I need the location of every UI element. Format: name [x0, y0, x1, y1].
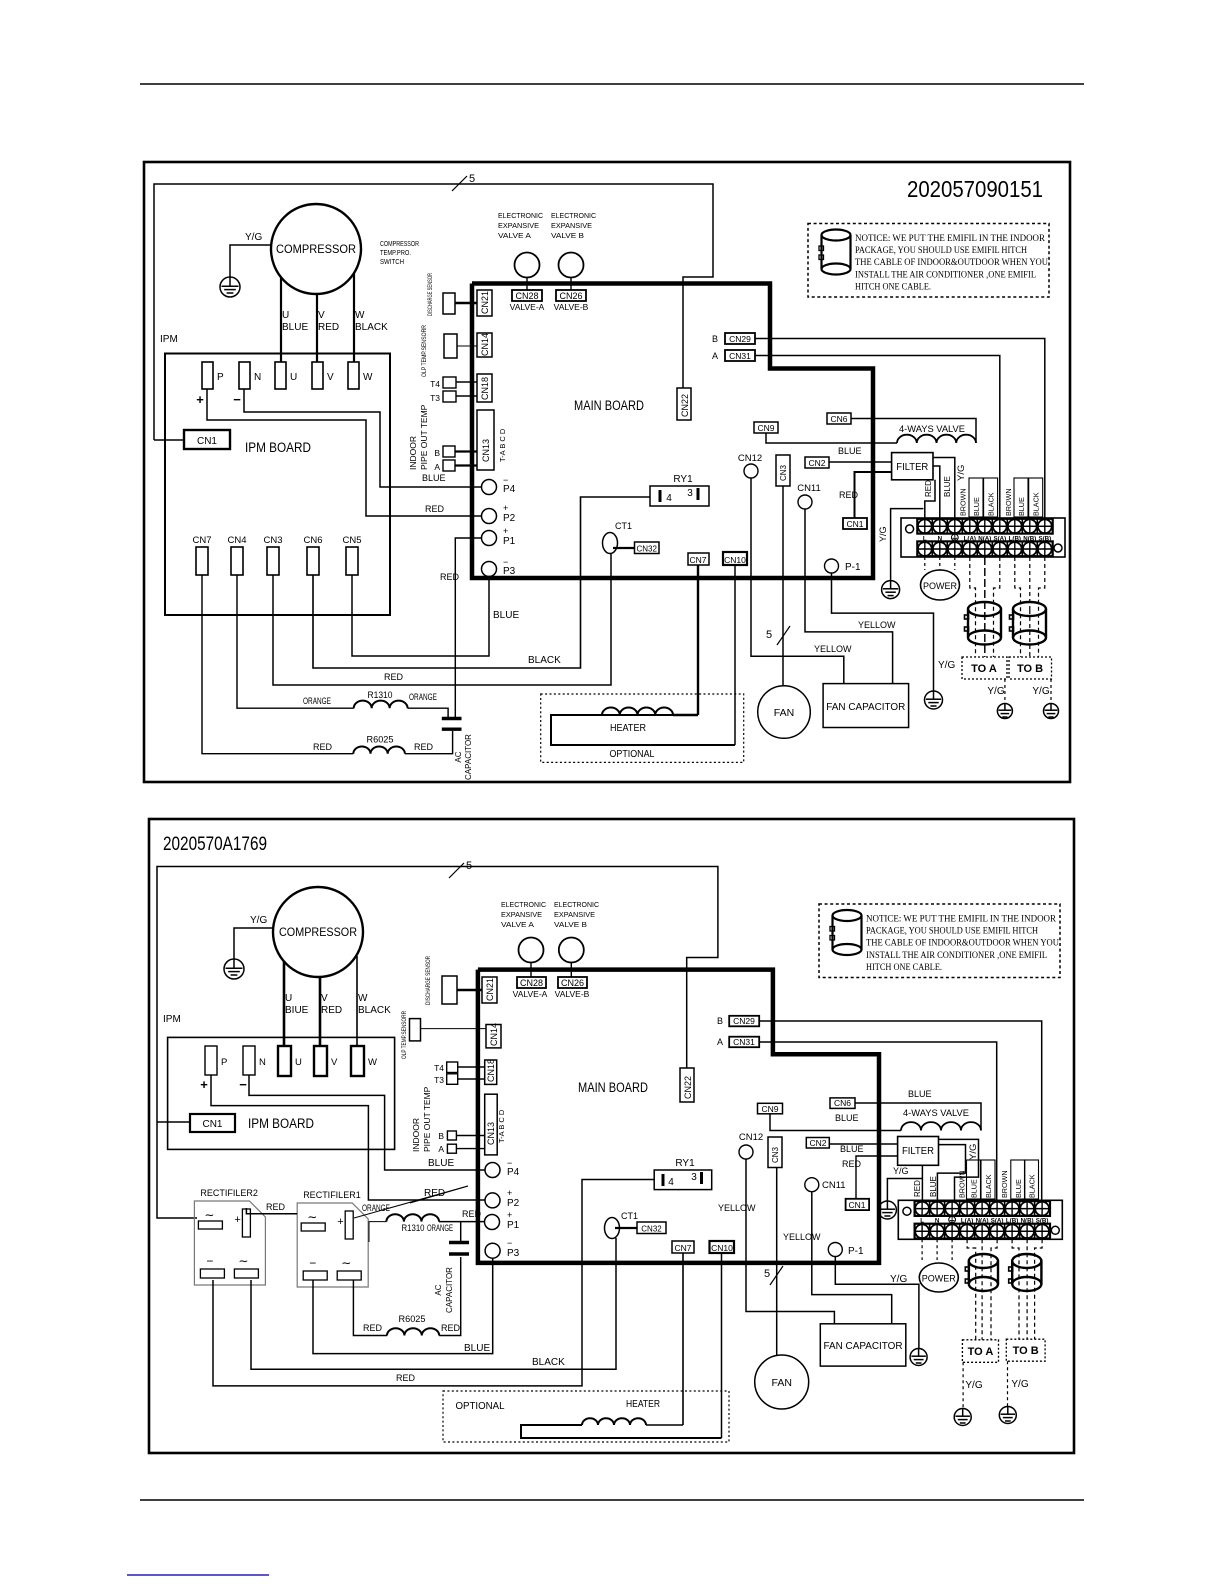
svg-text:RY1: RY1: [673, 474, 693, 485]
wire R1310 to P1 (bottom): [439, 1221, 485, 1223]
wire T4-CN18 (top): [456, 381, 477, 383]
svg-text:ORANGE: ORANGE: [427, 1223, 453, 1233]
svg-text:BLUE: BLUE: [428, 1158, 454, 1169]
svg-text:BLUE: BLUE: [1014, 1179, 1023, 1198]
svg-text:Y/G: Y/G: [938, 660, 955, 671]
svg-text:N: N: [259, 1057, 266, 1068]
ground compressor (top): [220, 277, 240, 297]
pad P4 (bottom): [485, 1163, 500, 1178]
svg-text:L: L: [923, 535, 927, 542]
svg-text:POWER: POWER: [922, 1274, 957, 1284]
relay RY1 (bottom): [654, 1170, 712, 1190]
terminal block (top): [901, 518, 1065, 557]
ground fan capacitor (bottom): [910, 1349, 927, 1366]
svg-text:EXPANSIVE: EXPANSIVE: [551, 221, 592, 230]
connector CN7 main (top): [688, 553, 709, 565]
svg-text:INDOOR: INDOOR: [408, 436, 418, 470]
terminal U (top): [275, 362, 286, 389]
connector CN5 IPM (top): [346, 547, 358, 575]
svg-text:NOTICE: WE PUT THE EMIFIL IN T: NOTICE: WE PUT THE EMIFIL IN THE INDOOR: [866, 915, 1057, 925]
svg-text:ORANGE: ORANGE: [362, 1203, 390, 1213]
connector CN3 main (top): [776, 455, 790, 486]
svg-text:RECTIFILER2: RECTIFILER2: [200, 1188, 258, 1198]
IPM board outline (top): [165, 354, 390, 616]
wire P to P2 RED (top): [207, 389, 481, 516]
connector CN13 (bottom): [485, 1094, 498, 1155]
connector CN4 IPM (top): [231, 547, 243, 575]
connector CN31 (top): [725, 350, 755, 361]
svg-text:P1: P1: [507, 1220, 520, 1231]
connector CN9 (bottom): [758, 1103, 783, 1114]
wire CN7 to heater (bottom): [682, 1253, 684, 1425]
svg-text:BIUE: BIUE: [285, 1005, 309, 1016]
connector CN18 (top): [477, 374, 492, 402]
valve A circle (top): [515, 253, 540, 278]
svg-text:CN5: CN5: [342, 535, 361, 546]
svg-text:CAPACITOR: CAPACITOR: [464, 734, 473, 780]
wire FILTER RED to L (top): [925, 480, 935, 518]
discharge sensor (bottom): [442, 976, 457, 1004]
svg-text:CN12: CN12: [738, 453, 762, 464]
wire OLP-CN14 (bottom): [421, 1028, 487, 1030]
svg-text:L(A): L(A): [964, 535, 976, 542]
svg-text:HITCH ONE CABLE.: HITCH ONE CABLE.: [866, 963, 942, 973]
wire ORANGE R1310 line (bottom): [369, 1222, 386, 1242]
svg-text:AC: AC: [434, 1284, 443, 1295]
transformer CT1 (top): [603, 533, 618, 554]
svg-text:PIPE OUT TEMP: PIPE OUT TEMP: [419, 404, 429, 470]
svg-text:OLP TEMP.SENSORR: OLP TEMP.SENSORR: [401, 1011, 408, 1059]
svg-text:P: P: [217, 372, 224, 383]
wire P-1 Y/G to earth (top): [832, 573, 934, 692]
fan motor (bottom): [755, 1355, 809, 1409]
wire discharge-CN21 (top): [455, 302, 477, 305]
svg-text:Y/G: Y/G: [1011, 1379, 1028, 1390]
svg-text:CN3: CN3: [263, 535, 282, 546]
wire CN5 BLUE to P3 (top): [352, 575, 489, 656]
connector CN10 main (top): [723, 552, 747, 565]
connector CN26 (bottom): [558, 977, 587, 988]
svg-text:FAN CAPACITOR: FAN CAPACITOR: [824, 1340, 903, 1352]
slash fan wire (bottom): [770, 1266, 783, 1285]
svg-text:IPM: IPM: [163, 1014, 181, 1025]
svg-text:N(B): N(B): [1023, 535, 1036, 542]
pad P4 (top): [482, 480, 497, 495]
svg-text:RED: RED: [321, 1005, 342, 1016]
pad P1 (bottom): [485, 1215, 500, 1230]
svg-text:RED: RED: [266, 1202, 286, 1212]
wire CN1 stub (top): [154, 439, 184, 441]
svg-text:BLUE: BLUE: [835, 1113, 859, 1123]
svg-text:CN10: CN10: [711, 1243, 733, 1253]
svg-text:CN29: CN29: [729, 334, 751, 344]
svg-text:BLACK: BLACK: [355, 322, 388, 333]
svg-text:CN18: CN18: [480, 377, 490, 400]
svg-text:S(B): S(B): [1036, 1218, 1049, 1225]
svg-text:RECTIFILER1: RECTIFILER1: [303, 1190, 361, 1200]
svg-text:Y/G: Y/G: [890, 1274, 907, 1285]
svg-text:4-WAYS VALVE: 4-WAYS VALVE: [903, 1108, 969, 1119]
svg-text:YELLOW: YELLOW: [718, 1203, 756, 1213]
pad P3 (top): [482, 562, 497, 577]
connector CN7 IPM (top): [196, 547, 208, 575]
wire FILTER BLUE (bottom): [937, 1145, 965, 1201]
wire CT1-CN32 (top): [613, 547, 635, 549]
sensor B (bottom): [447, 1131, 456, 1140]
wire rect2~ BLACK to CT1 (bottom): [251, 1238, 616, 1369]
svg-text:W: W: [358, 993, 368, 1004]
svg-text:P-1: P-1: [848, 1246, 864, 1257]
svg-text:CN22: CN22: [680, 394, 690, 417]
cable clamp B (top): [1013, 602, 1046, 616]
svg-text:CN13: CN13: [486, 1122, 496, 1145]
svg-text:FAN: FAN: [774, 707, 794, 719]
wire CN3 to FAN (top): [782, 486, 784, 686]
terminal V (top): [312, 362, 323, 389]
svg-text:V: V: [318, 310, 325, 321]
svg-text:T4: T4: [434, 1063, 444, 1073]
svg-text:CN26: CN26: [559, 291, 582, 301]
svg-text:CN4: CN4: [227, 535, 246, 546]
wire label BLACK (bottom): [1025, 1160, 1039, 1199]
TO B box (top): [1009, 657, 1052, 679]
svg-text:B: B: [438, 1131, 444, 1141]
wire T4-CN18 (bottom): [458, 1066, 485, 1068]
POWER ellipse (bottom): [919, 1263, 958, 1292]
capacitor AC plates (bottom): [449, 1241, 469, 1244]
valve A circle (bottom): [519, 938, 544, 963]
wire CN10 to heater (top): [734, 565, 736, 745]
svg-text:DISCHARGE SENSOR: DISCHARGE SENSOR: [426, 955, 432, 1005]
svg-text:4-WAYS VALVE: 4-WAYS VALVE: [899, 424, 965, 435]
cable clamp A (bottom): [969, 1254, 998, 1268]
svg-text:CN1: CN1: [197, 436, 217, 447]
svg-text:BLUE: BLUE: [1017, 497, 1026, 516]
wire compressor earth (top): [230, 245, 271, 277]
wire P1 to cap RED (top): [455, 538, 481, 717]
svg-text:CN26: CN26: [561, 978, 584, 988]
connector CN26 (top): [556, 290, 586, 301]
wire CN1 to FILTER RED (top): [855, 472, 892, 518]
fan capacitor box (bottom): [820, 1324, 906, 1366]
svg-text:MAIN BOARD: MAIN BOARD: [574, 398, 644, 413]
wire T3-CN18 (top): [456, 395, 477, 397]
svg-text:CN22: CN22: [683, 1076, 693, 1099]
dashed wire TO B earth (bottom): [1007, 1361, 1009, 1406]
svg-text:L(B): L(B): [1006, 1218, 1018, 1225]
svg-text:B: B: [717, 1016, 723, 1026]
svg-text:IPM BOARD: IPM BOARD: [248, 1116, 314, 1131]
svg-text:EXPANSIVE: EXPANSIVE: [554, 910, 595, 919]
svg-text:CN6: CN6: [830, 414, 847, 424]
connector CN21 (bottom): [482, 977, 497, 1003]
wire valveA-CN28 (bottom): [530, 963, 532, 978]
ground A (bottom): [954, 1409, 971, 1426]
wire CN3 RED to CT1 (top): [273, 554, 611, 685]
svg-text:TO B: TO B: [1013, 1345, 1039, 1357]
svg-text:−: −: [233, 392, 241, 407]
filter box (top): [892, 453, 933, 480]
wire rect1+ diagonal RED to P2 (bottom): [354, 1186, 468, 1218]
wire V (top): [316, 294, 318, 362]
4-ways valve coil (top): [897, 435, 976, 443]
svg-text:RED: RED: [414, 742, 434, 752]
svg-text:CN7: CN7: [689, 555, 706, 565]
svg-text:Y/G: Y/G: [956, 465, 967, 481]
wire label BLUE (top): [969, 478, 983, 517]
svg-text:OPTIONAL: OPTIONAL: [610, 748, 655, 760]
svg-text:INSTALL THE AIR CONDITIONER ,O: INSTALL THE AIR CONDITIONER ,ONE EMIFIL: [855, 270, 1036, 280]
svg-text:4: 4: [668, 1177, 674, 1188]
svg-text:POWER: POWER: [923, 581, 958, 591]
connector CN3 main (bottom): [768, 1137, 782, 1168]
svg-text:BLUE: BLUE: [943, 476, 952, 497]
svg-text:∼: ∼: [307, 1210, 317, 1224]
wire A-CN13 (bottom): [456, 1148, 484, 1150]
svg-text:NOTICE: WE PUT THE EMIFIL IN T: NOTICE: WE PUT THE EMIFIL IN THE INDOOR: [855, 234, 1046, 244]
svg-text:BROWN: BROWN: [1004, 488, 1013, 516]
svg-text:L(A): L(A): [961, 1218, 973, 1225]
svg-text:VALVE-A: VALVE-A: [510, 302, 545, 312]
wire CN12 YELLOW to fan cap (top): [751, 478, 844, 684]
wire FILTER Y/G (top): [933, 458, 955, 519]
wire N to P4 BLUE (top): [244, 389, 481, 487]
svg-text:Y/G: Y/G: [1032, 686, 1049, 697]
ground B (top): [1044, 704, 1059, 719]
connector CN10 main (bottom): [710, 1241, 735, 1253]
connector CN31 (bottom): [729, 1037, 759, 1048]
svg-text:Y/G: Y/G: [987, 686, 1004, 697]
svg-text:Y/G: Y/G: [965, 1380, 982, 1391]
svg-text:5: 5: [466, 860, 472, 872]
svg-text:W: W: [363, 372, 373, 383]
svg-text:CN10: CN10: [724, 555, 746, 565]
wire CN9 to valve coil (bottom): [770, 1114, 901, 1131]
wire CN10 to heater (bottom): [721, 1253, 723, 1438]
connector CN6 IPM (top): [307, 547, 319, 575]
wire valveB-CN26 (top): [570, 278, 572, 291]
wire P-1 Y/G to earth (bottom): [835, 1257, 919, 1350]
svg-text:RED: RED: [441, 1323, 461, 1333]
svg-text:IPM BOARD: IPM BOARD: [245, 440, 311, 455]
wire N to P4 BLUE (bottom): [249, 1075, 485, 1170]
svg-text:BLUE: BLUE: [422, 473, 446, 483]
svg-text:TO B: TO B: [1017, 663, 1043, 675]
terminal P (top): [202, 362, 213, 389]
svg-text:4: 4: [666, 493, 672, 504]
svg-text:T-A B C D: T-A B C D: [498, 428, 507, 462]
relay RY1 (top): [650, 486, 709, 506]
footer link underline: [127, 1574, 269, 1576]
connector CN1 main (top): [843, 518, 867, 529]
svg-text:FILTER: FILTER: [896, 461, 928, 473]
svg-text:+: +: [234, 1214, 240, 1226]
connector CN1 main (bottom): [846, 1199, 870, 1210]
rectifier RECTIFILER2: [194, 1201, 265, 1285]
wire CN11 YELLOW to fan cap (top): [805, 509, 893, 684]
OLP sensor (top): [444, 334, 457, 358]
terminal V (bottom): [314, 1046, 327, 1076]
svg-text:+: +: [503, 526, 508, 536]
svg-text:THE CABLE OF INDOOR&OUTDOOR WH: THE CABLE OF INDOOR&OUTDOOR WHEN YOU: [855, 258, 1048, 268]
optional dashed box (bottom): [443, 1391, 729, 1442]
filter box (bottom): [898, 1137, 939, 1166]
main board outline (bottom): [478, 970, 879, 1263]
svg-text:V: V: [327, 372, 334, 383]
IPM board outline (bottom): [168, 1037, 395, 1149]
svg-text:EXPANSIVE: EXPANSIVE: [498, 221, 539, 230]
wire CN29 to S(B) (top): [755, 339, 1045, 519]
svg-text:FAN: FAN: [771, 1377, 791, 1389]
svg-text:BLUE: BLUE: [840, 1144, 864, 1154]
svg-text:HEATER: HEATER: [610, 722, 646, 734]
svg-text:S(A): S(A): [991, 1218, 1004, 1225]
svg-text:ELECTRONIC: ELECTRONIC: [551, 211, 596, 220]
svg-text:RED: RED: [440, 572, 460, 582]
connector CN1 IPM (top): [184, 430, 230, 449]
svg-text:RED: RED: [913, 1180, 922, 1197]
svg-text:S(A): S(A): [993, 535, 1006, 542]
svg-text:CN31: CN31: [733, 1037, 755, 1047]
svg-text:W: W: [368, 1057, 377, 1068]
wire CN2 to FILTER (top): [829, 461, 892, 463]
notice box (top): [808, 224, 1049, 298]
svg-text:RED: RED: [924, 480, 933, 497]
wire CN7ipm RED to R6025 (top): [202, 575, 353, 754]
sensor A (bottom): [447, 1144, 456, 1153]
svg-text:BLACK: BLACK: [528, 655, 561, 666]
wire U (bottom): [283, 961, 286, 1046]
svg-text:PACKAGE, YOU SHOULD USE EMIFIL: PACKAGE, YOU SHOULD USE EMIFIL HITCH: [866, 927, 1038, 937]
connector CN9 (top): [754, 422, 778, 433]
svg-text:BLUE: BLUE: [464, 1343, 490, 1354]
fan motor (top): [758, 686, 811, 739]
svg-text:AC: AC: [454, 751, 463, 762]
svg-text:CN1: CN1: [848, 1200, 865, 1210]
svg-text:+: +: [507, 1188, 512, 1198]
slash fan wire (top): [777, 626, 790, 645]
wire T3-CN18 (bottom): [458, 1078, 485, 1080]
wire B-CN13 (top): [455, 450, 477, 452]
svg-text:T-A B C D: T-A B C D: [497, 1109, 506, 1143]
svg-text:PACKAGE, YOU SHOULD USE EMIFIL: PACKAGE, YOU SHOULD USE EMIFIL HITCH: [855, 246, 1027, 256]
POWER ellipse (top): [921, 570, 960, 600]
svg-text:+: +: [200, 1077, 208, 1092]
ground near terminal (bottom): [878, 1201, 896, 1219]
wire valveA-CN28 (top): [526, 278, 528, 291]
svg-text:N: N: [935, 1218, 940, 1225]
svg-text:P4: P4: [503, 484, 516, 495]
cable drops to clamp B (bottom): [1012, 1239, 1019, 1339]
svg-text:5: 5: [764, 1268, 770, 1280]
wire A-CN13 (top): [455, 464, 477, 466]
wire R1310 to cap (top): [408, 708, 449, 717]
svg-text:A: A: [434, 462, 440, 472]
wire CN11 YELLOW to fan cap (bottom): [812, 1192, 892, 1324]
svg-text:CN11: CN11: [822, 1180, 846, 1191]
svg-text:N(A): N(A): [978, 535, 991, 542]
connector CN28 (top): [512, 290, 542, 301]
svg-text:TO A: TO A: [968, 1346, 994, 1358]
wire U (top): [280, 278, 282, 362]
TO A box (bottom): [962, 1340, 998, 1363]
connector CN14 (top): [477, 333, 492, 357]
svg-text:CN2: CN2: [809, 1138, 826, 1148]
terminal U (bottom): [278, 1046, 291, 1076]
svg-text:−: −: [239, 1077, 247, 1092]
valve B circle (top): [559, 253, 584, 278]
svg-text:CN9: CN9: [757, 423, 774, 433]
svg-text:CN18: CN18: [486, 1059, 496, 1082]
svg-text:BLACK: BLACK: [1028, 1174, 1037, 1198]
wire label BLACK (top): [984, 478, 998, 517]
svg-text:IPM: IPM: [160, 334, 178, 345]
cable drops to clamp B (top): [1015, 557, 1021, 657]
svg-text:BLACK: BLACK: [532, 1357, 565, 1368]
svg-text:U: U: [295, 1057, 302, 1068]
terminal N (top): [239, 362, 250, 389]
svg-text:T3: T3: [430, 393, 440, 403]
svg-text:Y/G: Y/G: [250, 915, 267, 926]
svg-text:BLACK: BLACK: [984, 1174, 993, 1198]
svg-text:EXPANSIVE: EXPANSIVE: [501, 910, 542, 919]
dashed wire TO B earth (top): [1050, 679, 1052, 703]
sensor T4 (top): [443, 377, 456, 388]
svg-text:CN12: CN12: [739, 1132, 763, 1143]
svg-text:U: U: [290, 372, 297, 383]
wire net to rectifier2 (bottom): [157, 1122, 197, 1218]
heater element (top): [602, 714, 673, 716]
slash mark 5 (top): [452, 176, 467, 191]
inductor R1310 (bottom): [386, 1214, 439, 1221]
svg-text:A: A: [712, 351, 718, 361]
svg-text:INSTALL THE AIR CONDITIONER ,O: INSTALL THE AIR CONDITIONER ,ONE EMIFIL: [866, 951, 1047, 961]
svg-text:L: L: [920, 1218, 924, 1225]
wire earth Y/G (top): [891, 509, 924, 580]
wire CN1 to FILTER RED (bottom): [856, 1156, 898, 1199]
svg-text:RED: RED: [318, 322, 339, 333]
svg-text:5: 5: [469, 173, 475, 185]
svg-text:T4: T4: [430, 379, 440, 389]
svg-text:N(B): N(B): [1021, 1218, 1034, 1225]
svg-text:N: N: [254, 372, 261, 383]
page top rule: [140, 83, 1084, 85]
svg-text:3: 3: [691, 1172, 697, 1183]
wire net-5 (top): [154, 184, 713, 440]
connector CN6 main (bottom): [830, 1098, 855, 1109]
svg-text:FILTER: FILTER: [902, 1145, 934, 1157]
svg-text:CT1: CT1: [621, 1211, 638, 1221]
wire CN3 to FAN (bottom): [776, 1168, 778, 1356]
connector CN7 main (bottom): [672, 1241, 694, 1253]
pad P-1 (bottom): [828, 1243, 842, 1257]
svg-text:OPTIONAL: OPTIONAL: [456, 1400, 505, 1412]
svg-text:VALVE-A: VALVE-A: [513, 989, 548, 999]
wire rect1~ to R6025 (bottom): [353, 1280, 387, 1336]
svg-text:COMPRESSOR: COMPRESSOR: [279, 927, 357, 939]
pad P2 (top): [482, 509, 497, 524]
svg-text:CN11: CN11: [797, 483, 821, 494]
svg-text:P3: P3: [507, 1248, 520, 1259]
terminal P (bottom): [205, 1046, 217, 1075]
svg-text:CN3: CN3: [771, 1146, 780, 1163]
dashed wire TO A earth (top): [1004, 679, 1006, 703]
svg-text:VALVE B: VALVE B: [551, 231, 584, 240]
svg-text:−: −: [206, 1254, 213, 1268]
svg-text:VALVE A: VALVE A: [501, 920, 535, 929]
main board outline (top): [472, 284, 873, 579]
wire discharge-CN21 (bottom): [457, 989, 482, 992]
